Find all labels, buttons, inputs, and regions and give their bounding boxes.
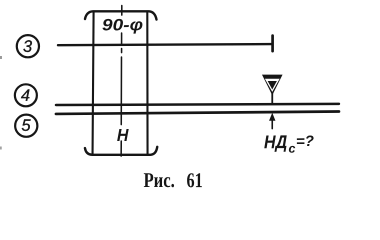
node 4 circle xyxy=(15,84,37,106)
svg-text:4: 4 xyxy=(21,87,30,105)
terminator tick on line 3 xyxy=(271,36,274,52)
svg-text:=?: =? xyxy=(296,133,314,150)
svg-text:H: H xyxy=(117,125,129,145)
node 3 circle xyxy=(17,35,39,57)
caption Fig. 61 xyxy=(143,168,202,192)
bottom bracket xyxy=(85,147,157,155)
label NDc=? xyxy=(264,131,314,156)
svg-text:61: 61 xyxy=(186,168,202,192)
wire line 4 xyxy=(56,104,339,105)
column right wall xyxy=(146,12,148,155)
svg-text:90-φ: 90-φ xyxy=(102,16,144,34)
column left wall xyxy=(93,12,94,155)
node 5 circle xyxy=(15,115,37,137)
centerline dash segments xyxy=(120,6,123,157)
top bracket xyxy=(85,11,157,19)
arrow head xyxy=(269,113,275,121)
arrow shaft xyxy=(271,119,273,129)
wire line 3 xyxy=(58,44,272,45)
svg-text:с: с xyxy=(288,142,295,156)
scan speck left edge lower xyxy=(0,146,2,149)
svg-text:Рис.: Рис. xyxy=(143,168,174,192)
wire line 5 xyxy=(56,111,339,114)
water level symbol triangle xyxy=(262,75,283,96)
svg-text:5: 5 xyxy=(21,117,31,135)
svg-text:НД: НД xyxy=(264,131,287,152)
water level symbol stem xyxy=(271,93,273,105)
scan speck left edge upper xyxy=(0,56,2,59)
svg-text:3: 3 xyxy=(23,38,33,56)
